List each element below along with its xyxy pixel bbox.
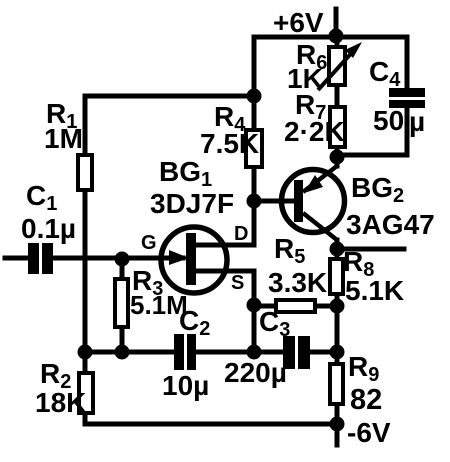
svg-text:5.1K: 5.1K (345, 275, 404, 306)
svg-text:2·2K: 2·2K (284, 116, 345, 147)
svg-text:+6V: +6V (273, 7, 324, 38)
svg-text:0.1µ: 0.1µ (21, 213, 76, 244)
svg-text:3.3K: 3.3K (268, 267, 327, 298)
svg-text:10µ: 10µ (162, 370, 209, 401)
svg-text:µ: µ (409, 106, 425, 137)
svg-text:82: 82 (350, 384, 382, 416)
svg-text:G: G (141, 232, 157, 254)
svg-text:18K: 18K (35, 387, 86, 418)
svg-text:-6V: -6V (347, 417, 391, 448)
svg-text:S: S (231, 272, 244, 294)
svg-text:7.5K: 7.5K (200, 128, 259, 159)
svg-text:1M: 1M (44, 123, 83, 154)
svg-text:D: D (234, 223, 248, 245)
svg-text:3AG47: 3AG47 (346, 209, 435, 240)
svg-text:50: 50 (373, 105, 404, 136)
svg-text:220µ: 220µ (224, 357, 287, 388)
svg-text:3DJ7F: 3DJ7F (150, 188, 234, 219)
